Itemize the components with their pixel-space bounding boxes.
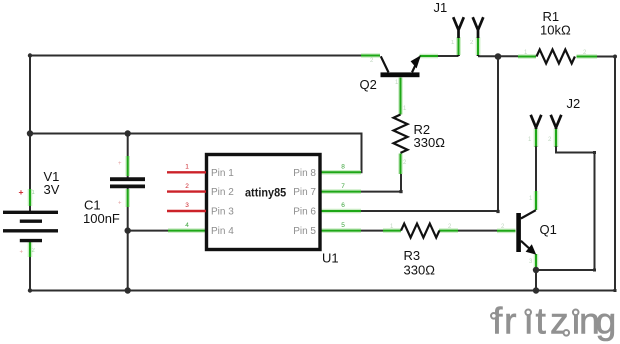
svg-text:10kΩ: 10kΩ — [540, 23, 571, 38]
svg-text:attiny85: attiny85 — [245, 185, 286, 199]
svg-text:330Ω: 330Ω — [414, 135, 446, 150]
svg-text:Q1: Q1 — [540, 222, 557, 237]
svg-text:J1: J1 — [434, 0, 448, 15]
svg-text:4: 4 — [185, 222, 189, 229]
pin leg 1 — [167, 171, 206, 173]
svg-text:1: 1 — [185, 164, 189, 171]
svg-text:+: + — [19, 187, 24, 197]
op IC U1 attiny85 — [207, 155, 321, 250]
svg-text:Pin 2: Pin 2 — [211, 187, 234, 198]
junction node Q1 emitter — [533, 267, 539, 273]
wire J2 pin1 down to Q1 collector — [535, 147, 537, 191]
junction node C1 bottom — [125, 287, 131, 293]
svg-text:100nF: 100nF — [83, 211, 120, 226]
svg-text:Pin 8: Pin 8 — [293, 168, 316, 179]
tiny pin markers battery and C1 — [19, 161, 122, 256]
connector J2 pin1 — [531, 115, 542, 147]
svg-text:R3: R3 — [404, 248, 421, 263]
wire J1 pin2 to R1 left through node A — [478, 55, 518, 57]
svg-text:Pin 4: Pin 4 — [211, 226, 234, 237]
svg-text:3: 3 — [185, 202, 189, 209]
svg-text:3V: 3V — [44, 182, 60, 197]
svg-text:330Ω: 330Ω — [404, 263, 436, 278]
wire top rail from battery+ to Q2 — [30, 55, 361, 57]
resistor R1 — [537, 50, 575, 64]
wire right vertical from bottom rail up to R1 right — [597, 57, 615, 291]
svg-text:Q2: Q2 — [360, 77, 377, 92]
capacitor C1 — [110, 179, 145, 186]
pin leg glow group — [30, 37, 597, 270]
pin name labels — [211, 168, 316, 237]
svg-text:J2: J2 — [567, 96, 581, 111]
svg-text:Pin 5: Pin 5 — [293, 226, 316, 237]
wire Q2 emitter to J1 pin1 — [438, 55, 459, 57]
wire pin5 to R3 left — [357, 230, 383, 232]
svg-text:2: 2 — [185, 183, 189, 190]
small net number labels — [370, 40, 587, 265]
wire C1 bottom lead down to bottom rail — [127, 187, 129, 291]
resistor R3 — [401, 224, 439, 238]
wire corner caps — [28, 53, 617, 292]
svg-text:Pin 6: Pin 6 — [293, 207, 316, 218]
connector J2 pin2 — [551, 115, 562, 147]
wire battery negative down to bottom rail — [29, 241, 31, 291]
junction node C1 pin4 — [125, 227, 131, 233]
pin leg green overlays on connectors — [459, 38, 557, 147]
wire left vertical from top rail to battery positive plate — [29, 56, 31, 212]
svg-text:+: + — [118, 201, 122, 207]
wire pin4 to C1 branch — [128, 230, 168, 232]
svg-text:6: 6 — [341, 202, 345, 209]
transistor Q2 — [381, 55, 421, 77]
wire bottom rail — [30, 290, 615, 292]
svg-text:U1: U1 — [322, 251, 339, 266]
wire pin6 to node A — [357, 57, 498, 212]
svg-text:Pin 7: Pin 7 — [293, 187, 316, 198]
wire J2 pin2 corner to right loop — [536, 147, 595, 270]
transistor Q1 — [516, 210, 536, 254]
svg-text:5: 5 — [341, 222, 345, 229]
svg-text:7: 7 — [341, 183, 345, 190]
fritzing logo — [491, 300, 616, 342]
wire Q1 emitter junction down to bottom rail — [535, 270, 537, 291]
connector J1 pin1 — [453, 17, 464, 56]
junction node A (J1/R1/pin6) — [495, 53, 502, 60]
battery V1 — [3, 212, 58, 240]
pin number labels right — [341, 164, 345, 229]
svg-text:Pin 3: Pin 3 — [211, 207, 234, 218]
junction node C1 top — [125, 130, 131, 136]
svg-text:frıtzıng: frıtzıng — [492, 300, 616, 342]
junction node bottom rail Q1 — [533, 287, 539, 293]
svg-text:8: 8 — [341, 164, 345, 171]
wire mid rail y=133.5 from left vertical to pin 8 — [30, 134, 362, 173]
pin number labels left — [185, 164, 189, 229]
wire R3 right to Q1 base — [458, 230, 498, 232]
svg-text:+: + — [118, 161, 122, 167]
svg-text:Pin 1: Pin 1 — [211, 168, 234, 179]
resistor R2 — [394, 115, 408, 153]
junction node battery top rail — [27, 130, 33, 136]
pin leg core group — [30, 37, 597, 270]
svg-text:+: + — [19, 250, 23, 256]
pin leg 3 — [167, 210, 206, 212]
connector J1 pin2 — [473, 17, 484, 56]
wire C1 top lead to mid rail — [127, 134, 129, 179]
wire endpoint squares — [399, 151, 616, 292]
pin leg 2 — [167, 190, 206, 192]
wire pin7 to R2 bottom — [360, 174, 401, 192]
